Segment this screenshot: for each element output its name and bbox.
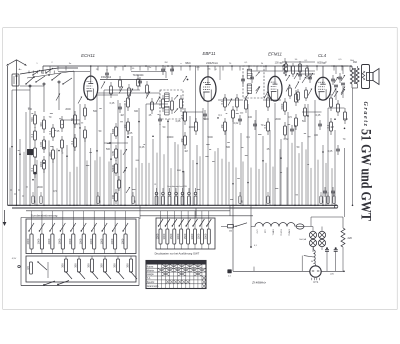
svg-text:1000: 1000: [37, 238, 41, 244]
svg-text:0,05: 0,05: [176, 120, 181, 123]
svg-text:3000: 3000: [162, 233, 166, 239]
svg-text:EBF11: EBF11: [202, 51, 216, 56]
svg-text:1000: 1000: [120, 238, 124, 244]
svg-text:100: 100: [248, 116, 253, 119]
svg-text:300: 300: [74, 263, 78, 268]
svg-text:0,5: 0,5: [263, 124, 267, 128]
svg-text:2000: 2000: [275, 118, 281, 121]
svg-text:300: 300: [100, 263, 104, 268]
svg-text:1000: 1000: [99, 238, 103, 244]
svg-text:EFM11: EFM11: [288, 230, 290, 237]
svg-text:ECH11: ECH11: [81, 53, 95, 58]
svg-text:300: 300: [39, 122, 43, 127]
svg-text:1000: 1000: [78, 238, 82, 244]
svg-text:2000: 2000: [26, 238, 30, 244]
svg-text:5M: 5M: [135, 200, 137, 203]
svg-text:1M: 1M: [35, 200, 37, 203]
svg-text:1M: 1M: [242, 200, 244, 203]
svg-text:100: 100: [314, 134, 319, 137]
svg-text:0,1: 0,1: [30, 133, 34, 137]
svg-text:4,5V: 4,5V: [12, 258, 17, 260]
svg-text:CY1: CY1: [313, 280, 319, 284]
svg-text:5000: 5000: [280, 103, 284, 109]
svg-text:0,05: 0,05: [39, 141, 43, 147]
svg-text:Langw.: Langw.: [147, 274, 155, 276]
svg-text:3000: 3000: [190, 233, 194, 239]
svg-text:300: 300: [344, 118, 349, 121]
svg-text:0,1: 0,1: [70, 140, 74, 144]
svg-text:3000: 3000: [176, 233, 180, 239]
svg-text:300: 300: [134, 110, 139, 113]
svg-text:1500: 1500: [169, 233, 173, 239]
svg-text:0,25: 0,25: [140, 146, 145, 149]
svg-text:100: 100: [28, 108, 33, 111]
svg-text:7100/344: 7100/344: [133, 73, 144, 77]
svg-text:0,5: 0,5: [123, 100, 127, 104]
svg-text:100 qqF: 100 qqF: [275, 62, 284, 65]
svg-text:0,05: 0,05: [112, 151, 115, 156]
svg-text:1M: 1M: [330, 126, 333, 129]
svg-text:Sperrkr.: Sperrkr.: [147, 281, 155, 284]
svg-text:2000: 2000: [47, 238, 51, 244]
svg-text:1M: 1M: [120, 114, 123, 117]
svg-text:200: 200: [48, 152, 52, 157]
svg-text:1500: 1500: [155, 233, 159, 239]
svg-text:Drucktasten bei GW: Drucktasten bei GW: [167, 185, 188, 188]
svg-text:2M: 2M: [164, 62, 167, 64]
svg-text:1500: 1500: [197, 233, 201, 239]
svg-text:500: 500: [30, 117, 34, 122]
svg-text:500: 500: [106, 148, 111, 151]
svg-text:0,1: 0,1: [30, 167, 34, 171]
svg-text:300: 300: [87, 263, 91, 268]
svg-text:10000: 10000: [167, 136, 174, 139]
svg-text:Kurzw.: Kurzw.: [147, 265, 154, 268]
svg-text:2000: 2000: [89, 238, 93, 244]
svg-text:0,1: 0,1: [228, 276, 231, 278]
svg-text:700: 700: [112, 194, 115, 199]
svg-text:5000: 5000: [207, 136, 213, 139]
svg-text:500: 500: [302, 120, 307, 123]
svg-text:2000: 2000: [110, 238, 114, 244]
svg-text:10000: 10000: [189, 126, 196, 129]
svg-text:0,05: 0,05: [328, 150, 333, 153]
svg-text:Graetz: Graetz: [362, 102, 368, 127]
svg-text:Zf.468kHz: Zf.468kHz: [251, 280, 266, 284]
svg-text:0,02: 0,02: [284, 138, 289, 141]
svg-text:Drucktasten nur bei Ausführung: Drucktasten nur bei Ausführung GWT: [155, 252, 200, 256]
svg-text:0,02: 0,02: [234, 122, 239, 125]
svg-text:T.A.: T.A.: [147, 277, 151, 280]
svg-text:EFM11: EFM11: [268, 52, 282, 57]
svg-text:300: 300: [226, 146, 231, 149]
svg-text:1500: 1500: [183, 233, 187, 239]
svg-text:51 GW und GWT: 51 GW und GWT: [358, 129, 374, 221]
svg-text:Mittelw.: Mittelw.: [147, 269, 155, 272]
svg-text:5000: 5000: [112, 128, 115, 134]
svg-text:150/344: 150/344: [101, 75, 112, 79]
svg-text:1000: 1000: [58, 238, 62, 244]
svg-text:4,5: 4,5: [26, 266, 30, 270]
svg-text:6000qqF: 6000qqF: [317, 62, 327, 65]
svg-text:96C: 96C: [185, 61, 191, 65]
svg-text:5M: 5M: [100, 200, 102, 203]
svg-text:5000: 5000: [203, 118, 209, 121]
svg-text:EBF11: EBF11: [272, 230, 274, 237]
svg-text:Grammoph.: Grammoph.: [147, 285, 159, 288]
svg-text:300: 300: [126, 263, 130, 268]
svg-text:500: 500: [93, 110, 98, 113]
svg-text:1M: 1M: [184, 150, 187, 153]
svg-text:5M: 5M: [323, 200, 325, 203]
svg-text:2000: 2000: [68, 238, 72, 244]
svg-text:ECH11: ECH11: [280, 230, 282, 237]
svg-text:1000: 1000: [39, 161, 43, 167]
svg-text:220k/5mA: 220k/5mA: [206, 61, 218, 65]
svg-text:220: 220: [348, 236, 353, 240]
svg-text:0,1: 0,1: [48, 130, 52, 134]
svg-text:3000: 3000: [204, 233, 208, 239]
svg-text:300: 300: [113, 263, 117, 268]
svg-text:0,25: 0,25: [110, 102, 115, 105]
svg-text:2000: 2000: [65, 108, 71, 111]
svg-text:2x0,1A: 2x0,1A: [299, 238, 306, 241]
svg-text:0,05: 0,05: [128, 132, 133, 135]
svg-text:300: 300: [61, 263, 65, 268]
svg-text:Sonderabstimmung: Sonderabstimmung: [31, 214, 58, 218]
svg-text:0,25: 0,25: [316, 114, 321, 117]
svg-text:2000: 2000: [37, 186, 43, 189]
svg-text:0,1: 0,1: [220, 100, 224, 104]
svg-text:1M: 1M: [220, 125, 224, 129]
svg-text:50000: 50000: [112, 165, 115, 172]
svg-text:CL4: CL4: [318, 53, 327, 58]
